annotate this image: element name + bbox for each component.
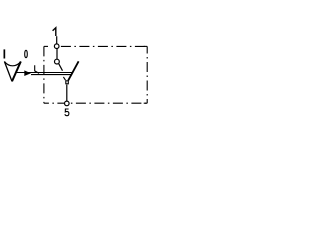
actuator triangle right side <box>12 62 21 82</box>
enclosure left edge <box>43 46 45 103</box>
wire to fixed contact <box>56 49 58 60</box>
actuator rod upper line <box>16 72 74 74</box>
wire pin 5 <box>66 85 68 102</box>
actuator arrowhead <box>24 70 31 76</box>
terminal circle pin 5 <box>65 101 70 106</box>
actuator rod lower line <box>31 74 72 76</box>
fixed contact circle <box>55 59 60 64</box>
enclosure bottom-right corner tick <box>144 102 148 104</box>
actuator engage tick <box>63 77 65 80</box>
fixed contact tail <box>59 64 63 71</box>
enclosure right edge <box>146 46 148 103</box>
spring return mark <box>35 65 39 73</box>
pin 1 label <box>53 28 56 36</box>
label 0 (off position) <box>25 50 28 58</box>
moving contact pivot <box>66 81 69 84</box>
enclosure top edge corner dash <box>44 45 48 47</box>
terminal circle pin 1 <box>54 44 59 49</box>
switch lever <box>68 61 78 80</box>
enclosure top edge <box>59 45 147 47</box>
label I (on position) <box>4 49 6 58</box>
actuator triangle top arc <box>4 62 20 66</box>
pin 5 label <box>65 109 69 116</box>
enclosure bottom edge <box>44 102 147 104</box>
wire pin 1 <box>56 36 58 44</box>
actuator triangle left side <box>4 62 12 82</box>
enclosure top-right corner tick <box>144 45 148 47</box>
